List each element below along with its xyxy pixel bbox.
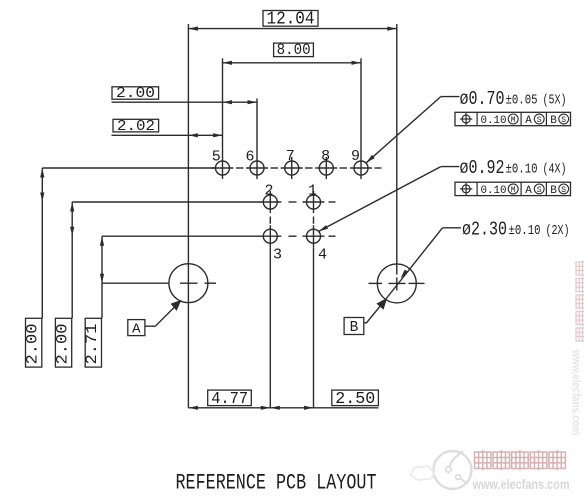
svg-text:REFERENCE PCB LAYOUT: REFERENCE PCB LAYOUT [176,469,377,495]
datum A [128,300,182,338]
hole 9 [354,157,368,179]
svg-text:12.04: 12.04 [267,9,315,29]
svg-text:S: S [561,116,566,125]
svg-text:4.77: 4.77 [211,390,248,409]
extension line mounting row left [102,282,170,284]
pin label 1 [308,183,317,200]
centerline row 5-9 [42,167,381,169]
svg-text:(5X): (5X) [543,92,567,108]
pin label 9 [351,148,360,165]
svg-text:S: S [561,186,566,195]
pin label 6 [245,148,254,165]
extension line left edge (PCB left) [187,24,189,408]
hole 3 [263,229,277,243]
mounting hole A (2.30) [169,264,216,303]
svg-text:M: M [511,116,516,125]
svg-text:2.00: 2.00 [53,324,71,365]
svg-text:A: A [132,321,141,337]
watermark elecfans [411,450,570,492]
annotation 0.92 [460,157,567,179]
hole 1 [307,195,321,209]
svg-text:www.elecfans.com: www.elecfans.com [570,349,582,435]
svg-text:B: B [350,320,359,336]
svg-text:2.71: 2.71 [83,324,101,365]
svg-text:0.10: 0.10 [481,115,507,127]
svg-text:3: 3 [273,247,282,264]
svg-text:2: 2 [264,183,273,200]
dimension 8.00 [223,41,362,157]
svg-text:2.50: 2.50 [335,390,375,409]
hole 6 [250,157,264,179]
annotation 2.30 [462,218,570,240]
svg-text:0.10: 0.10 [481,185,507,197]
pin label 5 [212,148,221,165]
leader 2.30 to mounting hole B [386,228,461,300]
dimension 12.04 [188,9,396,30]
leader 0.70 to hole 9 [366,97,459,163]
pin label 3 [273,247,282,264]
svg-text:8: 8 [321,148,330,165]
extension line right edge (PCB right) [396,24,398,275]
mounting hole B (2.30) [369,264,425,303]
pin label 4 [318,247,327,264]
svg-text:1: 1 [308,183,317,200]
svg-text:S: S [537,186,542,195]
svg-text:ø2.30: ø2.30 [462,218,507,240]
svg-text:±0.10: ±0.10 [509,223,541,239]
hole 5 [216,157,230,179]
feature control frame 0.70 [455,112,571,127]
svg-text:A: A [525,115,532,127]
svg-text:www.elecfans.com: www.elecfans.com [472,476,570,492]
dimension 2.71 vertical [83,236,104,367]
feature control frame 0.92 [455,182,571,197]
svg-text:A: A [525,185,532,197]
hole 2 [263,195,277,209]
title REFERENCE PCB LAYOUT [176,469,377,495]
svg-text:8.00: 8.00 [277,41,311,59]
svg-text:B: B [550,185,557,197]
dimension 2.02 [112,118,223,138]
datum B [344,298,387,336]
dimension 2.00 horizontal [112,85,258,157]
dimension 4.77 [188,390,378,410]
hole 4 [307,229,321,243]
centerline row 2-1 [72,201,335,203]
svg-text:±0.10: ±0.10 [506,161,538,177]
pin label 8 [321,148,330,165]
svg-text:7: 7 [286,148,295,165]
dimension 2.00 vertical (rows 5-9 to 2-1) [24,168,45,367]
pin label 7 [286,148,295,165]
svg-text:9: 9 [351,148,360,165]
svg-text:5: 5 [212,148,221,165]
dimension 2.50 [270,390,378,410]
svg-text:ø0.70: ø0.70 [460,88,505,110]
hole 8 [319,157,333,179]
svg-text:(4X): (4X) [543,161,567,177]
dimension 2.00 vertical (rows 2-1 to 3-4) [53,202,74,367]
svg-text:M: M [511,186,516,195]
svg-text:4: 4 [318,247,327,264]
column centerline [313,191,315,408]
hole 7 [285,157,299,179]
svg-text:2.00: 2.00 [116,85,155,102]
svg-text:6: 6 [245,148,254,165]
svg-text:B: B [550,115,557,127]
pin label 2 [264,183,273,200]
centerline row 3-4 [102,235,336,237]
svg-text:2.00: 2.00 [24,324,42,365]
column centerline [269,191,271,408]
svg-text:2.02: 2.02 [117,118,155,135]
leader 0.92 to hole 4 [319,167,460,232]
annotation 0.70 [460,88,567,110]
svg-text:(2X): (2X) [546,223,570,239]
svg-text:S: S [537,116,542,125]
svg-text:±0.05: ±0.05 [506,92,538,108]
svg-text:ø0.92: ø0.92 [460,157,505,179]
